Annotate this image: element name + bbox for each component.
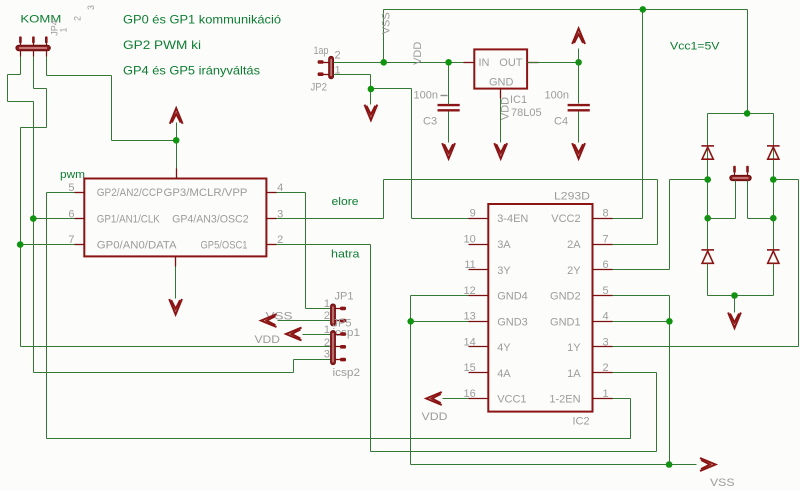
svg-text:2A: 2A: [567, 239, 581, 251]
junction GND at pin13: [407, 318, 414, 325]
wire KOMM pin2 down 2: [46, 89, 48, 128]
PIC top VDD stub: [176, 169, 178, 179]
wire L293 pin1 wire: [613, 398, 631, 400]
wire PIC VSS wire: [175, 267, 177, 299]
wire GND left drop: [410, 296, 412, 465]
icsp pin 2: [336, 346, 341, 348]
wire motor right link: [748, 218, 774, 220]
wire hatra drop: [370, 245, 372, 452]
wire JP1 pin2 wire: [278, 320, 331, 322]
svg-text:2: 2: [603, 362, 609, 374]
wire PIC pin7 wire: [21, 244, 75, 246]
wire KOMM pin2 down: [33, 57, 35, 89]
wire L293 pin5 wire: [613, 295, 670, 297]
wire 1Y riser right edge: [798, 180, 800, 347]
wire hatra horizontal: [371, 451, 657, 453]
wire IC1 GND wire: [500, 99, 502, 143]
svg-text:GND1: GND1: [550, 316, 581, 328]
junction GP1 at PIC pin6: [30, 215, 37, 222]
svg-text:4: 4: [603, 311, 609, 323]
svg-text:GP1/AN1/CLK: GP1/AN1/CLK: [97, 213, 161, 225]
wire VDD feed from JP2 pin2: [334, 62, 475, 64]
svg-text:GND: GND: [489, 76, 514, 88]
diode D4 lower right: [767, 250, 780, 263]
wire GND right drop: [669, 296, 671, 465]
wire 1Y top link: [774, 179, 799, 181]
supply symbol VSS below C3: [442, 143, 455, 159]
svg-text:C3: C3: [423, 115, 437, 127]
svg-text:7: 7: [603, 233, 609, 245]
junction VDD net at PIC top: [173, 137, 180, 144]
connector JP1 body: [331, 304, 336, 326]
junction GND rail node: [666, 461, 673, 468]
svg-text:VCC2: VCC2: [551, 213, 580, 225]
wire VDD5 drop to C4: [578, 63, 580, 104]
svg-text:100n: 100n: [545, 89, 569, 101]
svg-text:GP3/MCLR/VPP: GP3/MCLR/VPP: [164, 187, 248, 199]
connector MOTOR body: [730, 175, 751, 180]
wire net GP1 vertical: [33, 102, 35, 373]
wire L293 pin12 wire: [411, 295, 469, 297]
wire left diode column upper: [707, 114, 709, 161]
supply symbol VSS below IC1 GND: [494, 143, 507, 159]
svg-text:VSS: VSS: [381, 12, 393, 34]
wire 2Y riser: [669, 180, 671, 270]
svg-text:GP4/AN3/OSC2: GP4/AN3/OSC2: [172, 213, 249, 225]
junction motor right node upper: [770, 176, 777, 183]
svg-text:15: 15: [464, 362, 476, 374]
wire net to L293 pin9 horizontal: [371, 88, 412, 90]
junction motor left node upper: [704, 176, 711, 183]
wire net GP1 to icsp pin3 horizontal: [34, 372, 294, 374]
IC2 pin 15 stub: [469, 372, 489, 374]
svg-text:13: 13: [464, 311, 476, 323]
wire elore drop to L293 pin7: [657, 180, 659, 245]
IC2 pin 14 stub: [469, 346, 489, 348]
connector icsp body: [331, 331, 336, 365]
PIC pin 6 stub: [75, 218, 85, 220]
wire hatra riser to L293 pin2: [656, 373, 658, 452]
IC2 pin 12 stub: [469, 295, 489, 297]
wire JP2 pin1 wire: [334, 74, 371, 76]
wire IC1 OUT wire: [528, 62, 579, 64]
svg-text:1: 1: [603, 388, 609, 400]
IC2 pin 3 stub: [593, 346, 613, 348]
diode D2 upper right: [767, 146, 780, 159]
PIC pin 5 stub: [75, 192, 85, 194]
svg-text:4A: 4A: [497, 368, 511, 380]
IC2 pin 6 stub: [593, 269, 613, 271]
svg-text:pwm: pwm: [60, 169, 85, 181]
junction GND at pin4: [666, 318, 673, 325]
wire VDD5 riser: [578, 49, 580, 63]
wire C3 bottom lead: [448, 112, 450, 143]
diode D1 upper left: [701, 146, 714, 159]
MOTOR pin 2: [746, 166, 749, 173]
wire elore from PIC pin3: [277, 218, 384, 220]
wire net GP1 icsp riser: [293, 360, 295, 373]
KOMM pin 2: [32, 36, 35, 43]
connector KOMM body: [16, 45, 50, 50]
wire lower right diode lead: [773, 264, 775, 296]
junction VDD5 node at IC1 OUT: [575, 59, 582, 66]
svg-text:icsp1: icsp1: [333, 327, 361, 339]
wire L293 pin6 wire: [613, 269, 670, 271]
svg-text:VDD: VDD: [412, 42, 424, 65]
svg-text:VDD: VDD: [500, 97, 512, 120]
wire net GP0 vertical: [20, 128, 22, 347]
svg-text:1Y: 1Y: [567, 342, 581, 354]
wire L293 pin8 wire: [613, 218, 643, 220]
op-amp U1 PIC12 box: [84, 179, 266, 257]
supply symbol VSS below C4: [572, 143, 585, 159]
wire KOMM pin1 down: [20, 57, 22, 75]
wire VSS riser at JP2: [383, 10, 385, 63]
wire right diode column: [773, 161, 775, 251]
KOMM pin 1: [19, 36, 22, 43]
PIC pin 2 stub right: [267, 244, 277, 246]
svg-text:IC1: IC1: [510, 94, 527, 106]
wire icsp pin1 wire: [303, 334, 331, 336]
supply symbol VSS arrow right on GND rail: [700, 458, 716, 471]
IC2 pin 1 stub: [593, 398, 613, 400]
wire net VDD to PIC: [112, 140, 177, 142]
svg-text:9: 9: [470, 208, 476, 220]
IC1 IN stub: [464, 62, 475, 64]
svg-text:GND2: GND2: [550, 291, 581, 303]
wire diode bottom rail: [708, 295, 774, 297]
icsp pin 3: [336, 359, 341, 361]
wire JP2 pin1 drop: [370, 75, 372, 105]
svg-text:VCC1: VCC1: [497, 394, 526, 406]
svg-text:GP4 és GP5 irányváltás: GP4 és GP5 irányváltás: [123, 64, 260, 78]
JP2 pin 2: [318, 60, 324, 64]
svg-text:4Y: 4Y: [497, 342, 511, 354]
svg-text:GP0/AN0/DATA: GP0/AN0/DATA: [97, 239, 177, 251]
svg-text:1: 1: [59, 27, 69, 32]
wire diode feed split: [708, 113, 774, 115]
svg-text:VDD: VDD: [255, 334, 281, 346]
PIC pin 4 stub right: [267, 192, 277, 194]
wire net GP0 to icsp pin2 horizontal: [21, 346, 331, 348]
wire right diode column upper: [773, 114, 775, 161]
supply symbol VSS below PIC: [169, 299, 182, 315]
wire L293 pin13 wire: [411, 321, 469, 323]
junction JP2 pin1 node: [368, 86, 375, 93]
svg-text:8: 8: [603, 208, 609, 220]
wire JP1 pin1 wire: [306, 308, 331, 310]
junction top rail at VCC2: [640, 6, 647, 13]
svg-text:11: 11: [464, 259, 475, 271]
JP1 pin 2: [336, 320, 341, 322]
wire top rail drop right: [747, 10, 749, 114]
wire C4 bottom lead: [578, 112, 580, 143]
wire L293 pin9 wire: [412, 218, 469, 220]
KOMM pin 3: [45, 36, 48, 43]
svg-text:3: 3: [324, 349, 330, 361]
wire hatra from PIC pin2: [277, 244, 371, 246]
IC2 pin 13 stub: [469, 321, 489, 323]
wire motor left link: [708, 218, 736, 220]
svg-text:GP2/AN2/CCP: GP2/AN2/CCP: [97, 187, 163, 199]
supply symbol VDD arrow at IC2 pin16: [426, 392, 442, 405]
wire L293 pin3 wire: [613, 346, 799, 348]
svg-text:1: 1: [324, 298, 330, 310]
IC1 OUT stub: [528, 62, 539, 64]
wire 2Y to diode node: [670, 179, 708, 181]
wire pwm vertical: [46, 193, 48, 439]
IC2 pin 16 stub: [469, 398, 489, 400]
PIC bottom VSS stub: [175, 257, 177, 267]
svg-text:3: 3: [603, 336, 609, 348]
wire KOMM pin2 left: [21, 127, 47, 129]
wire VCC2 riser: [642, 10, 644, 219]
MOTOR pin 2 lead: [747, 181, 749, 219]
wire net VDD drop: [111, 76, 113, 141]
icsp pin 1: [336, 334, 341, 336]
svg-text:2: 2: [335, 50, 341, 62]
IC2 pin 4 stub: [593, 321, 613, 323]
wire L293 pin4 wire: [613, 321, 670, 323]
svg-text:GND4: GND4: [497, 291, 528, 303]
wire KOMM pin3 right: [47, 75, 112, 77]
MOTOR pin 1 lead: [735, 181, 737, 219]
wire elore horizontal: [384, 179, 658, 181]
svg-text:3-4EN: 3-4EN: [497, 213, 528, 225]
supply symbol VDD arrow at icsp pin1: [286, 328, 302, 341]
supply symbol VSS below diode bridge: [728, 313, 741, 329]
junction diode bottom node: [731, 292, 738, 299]
wire PIC pin5 wire: [47, 192, 75, 194]
svg-text:Vcc1=5V: Vcc1=5V: [670, 41, 720, 53]
junction motor left node lower: [704, 215, 711, 222]
wire L293 pin2 wire: [613, 372, 657, 374]
C3 value dash: [441, 95, 448, 97]
junction top split node: [744, 110, 751, 117]
capacitor C3 plates: [438, 105, 460, 110]
svg-text:2Y: 2Y: [567, 265, 581, 277]
JP1 pin 1: [336, 308, 341, 310]
JP2 pin 1: [318, 72, 324, 76]
IC1 GND stub: [500, 89, 502, 99]
wire C3 top lead: [448, 63, 450, 105]
svg-text:GP2 PWM ki: GP2 PWM ki: [123, 38, 201, 52]
svg-text:2: 2: [73, 16, 83, 21]
svg-text:L293D: L293D: [554, 191, 590, 203]
wire pwm riser to pin1: [630, 399, 632, 439]
wire elore riser: [383, 180, 385, 219]
svg-text:6: 6: [603, 259, 609, 271]
capacitor C4 plates: [568, 105, 590, 110]
wire icsp pin3 wire: [294, 359, 331, 361]
junction VDD net at C3: [445, 59, 452, 66]
IC2 pin 7 stub: [593, 244, 613, 246]
svg-text:icsp2: icsp2: [333, 367, 361, 379]
wire lower left diode lead: [707, 264, 709, 296]
svg-text:IC2: IC2: [573, 416, 590, 428]
svg-text:VDD: VDD: [422, 411, 448, 423]
wire GND rail bottom: [411, 464, 697, 466]
supply symbol VSS below JP2: [365, 105, 378, 121]
svg-text:78L05: 78L05: [511, 107, 542, 119]
svg-text:3: 3: [86, 5, 96, 10]
svg-text:100n: 100n: [414, 89, 438, 101]
connector JP2 body: [329, 56, 334, 78]
supply symbol VDD above PIC: [170, 108, 183, 124]
diode D3 lower left: [701, 250, 714, 263]
svg-text:OUT: OUT: [499, 57, 523, 69]
IC2 pin 10 stub: [469, 244, 489, 246]
MOTOR pin 1: [733, 166, 736, 173]
wire KOMM pin1 right: [8, 101, 34, 103]
wire L293 pin16 wire: [443, 398, 469, 400]
motor driver IC2 L293D box: [488, 204, 592, 412]
svg-text:JP2: JP2: [311, 82, 328, 94]
IC2 pin 2 stub: [593, 372, 613, 374]
wire diode VSS lead: [734, 296, 736, 313]
voltage regulator IC1 78L05 box: [474, 49, 527, 88]
IC2 pin 5 stub: [593, 295, 613, 297]
svg-text:1A: 1A: [567, 368, 581, 380]
wire pwm horizontal to L293 pin1: [47, 438, 631, 440]
wire GP3 drop to JP1: [305, 193, 307, 309]
wire net to L293 pin9 drop: [411, 89, 413, 219]
wire GP3 from PIC pin4: [277, 192, 306, 194]
supply symbol VSS arrow at JP1 pin2: [261, 314, 277, 327]
svg-text:VSS: VSS: [710, 477, 735, 489]
wire L293 pin7 wire: [613, 244, 658, 246]
svg-text:GP0 és GP1 kommunikáció: GP0 és GP1 kommunikáció: [123, 13, 281, 27]
wire PIC pin6 wire: [34, 218, 75, 220]
junction VDD net at JP2: [380, 59, 387, 66]
svg-text:JP1: JP1: [335, 291, 354, 303]
svg-text:1-2EN: 1-2EN: [549, 394, 580, 406]
svg-text:3Y: 3Y: [497, 265, 511, 277]
wire KOMM pin2 right: [34, 88, 47, 90]
svg-text:5: 5: [603, 285, 609, 297]
PIC pin 3 stub right: [267, 218, 277, 220]
supply symbol VDD above IC1 OUT: [572, 29, 585, 45]
svg-text:C4: C4: [554, 115, 568, 127]
wire KOMM pin1 left: [8, 74, 21, 76]
svg-text:hatra: hatra: [331, 249, 360, 261]
PIC pin 7 stub: [75, 244, 85, 246]
svg-text:GP5/OSC1: GP5/OSC1: [201, 239, 248, 251]
junction motor right node lower: [770, 215, 777, 222]
wire left diode column: [707, 161, 709, 251]
wire top rail: [384, 9, 748, 11]
svg-text:elore: elore: [332, 196, 359, 208]
svg-text:3A: 3A: [497, 239, 511, 251]
svg-text:1ap: 1ap: [314, 45, 329, 57]
junction GP0 at PIC pin7: [17, 241, 24, 248]
svg-text:2: 2: [324, 337, 330, 349]
svg-text:10: 10: [464, 233, 476, 245]
IC2 pin 9 stub: [469, 218, 489, 220]
IC2 pin 11 stub: [469, 269, 489, 271]
svg-text:14: 14: [464, 336, 476, 348]
svg-text:GND3: GND3: [497, 316, 528, 328]
IC2 pin 8 stub: [593, 218, 613, 220]
wire PIC VDD pin riser: [176, 123, 178, 169]
wire KOMM pin1 down 2: [7, 75, 9, 102]
wire KOMM pin3 down: [46, 57, 48, 76]
svg-text:IN: IN: [479, 57, 490, 69]
